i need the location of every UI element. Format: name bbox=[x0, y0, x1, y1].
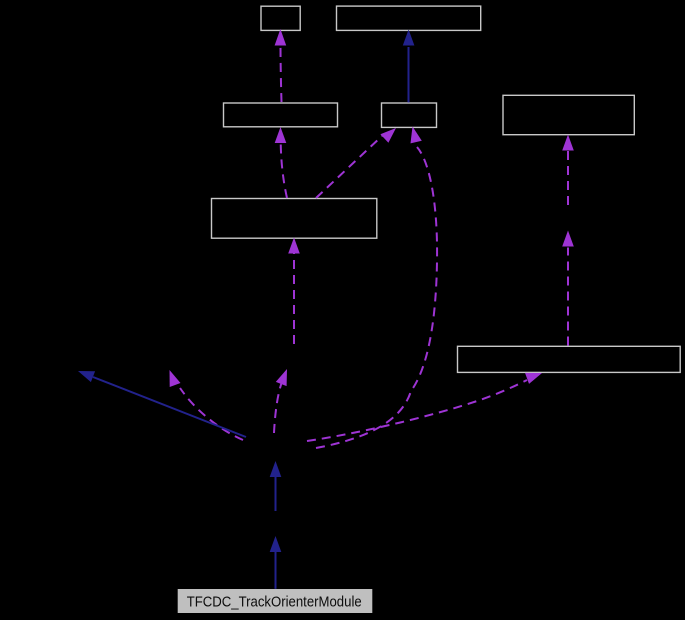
main node TFCDC_TrackOrienterModule (grey filled) bbox=[178, 589, 373, 613]
edge P6 dashed: hub up-left to hidden node bbox=[170, 370, 244, 440]
edge P8 dashed: hub to B7 bottom-left bbox=[307, 373, 542, 441]
edge L3 solid blue: main node top to hidden node bbox=[270, 536, 282, 589]
edge L4 solid blue: hidden node to hub bottom bbox=[270, 461, 282, 511]
node B6 (third row two-line box) bbox=[212, 199, 377, 239]
edge P9 dashed: B7 top to hidden node bbox=[562, 231, 574, 346]
edge P1 dashed: B3 top to B1 bottom bbox=[275, 29, 287, 102]
node B1 (top small box) bbox=[261, 6, 300, 30]
edge L2 solid blue: hub up-left to hidden node bbox=[78, 371, 246, 437]
edge P4 dashed: hidden node to B6 bottom bbox=[288, 238, 300, 345]
edge P7 dashed: hub big curve to B4 bottom bbox=[316, 127, 437, 449]
node B3 (second row left box) bbox=[224, 103, 338, 127]
svg-text:TFCDC_TrackOrienterModule: TFCDC_TrackOrienterModule bbox=[187, 595, 362, 611]
edge P10 dashed: hidden node to B5 bottom bbox=[562, 135, 574, 206]
node B4 (second row middle small box) bbox=[382, 103, 437, 127]
node B7 (middle right wide box) bbox=[458, 346, 681, 372]
edge P3 dashed: B6 top-right to B4 bottom-left bbox=[316, 128, 396, 198]
edge P2 dashed: B6 top to B3 bottom bbox=[275, 127, 287, 198]
node B5 (second row right two-line box) bbox=[503, 95, 634, 134]
node B2 (top wide box) bbox=[337, 6, 481, 30]
edge P5 dashed: hub to hidden node above bbox=[274, 369, 287, 433]
edge L1 solid blue: B4 top to B2 bottom bbox=[403, 30, 415, 103]
